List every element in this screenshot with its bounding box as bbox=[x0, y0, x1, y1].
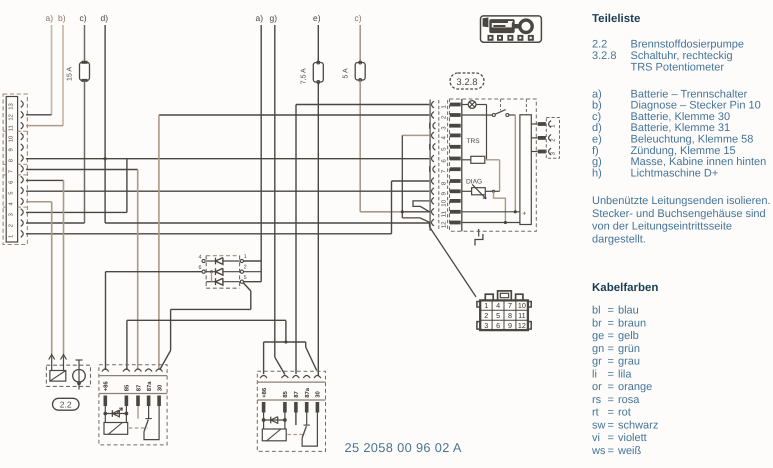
svg-text:a): a) bbox=[256, 13, 264, 23]
relay K1 suppressor diode bbox=[104, 406, 106, 414]
svg-text:5: 5 bbox=[8, 192, 14, 195]
svg-text:Diagnose – Stecker Pin 10: Diagnose – Stecker Pin 10 bbox=[631, 100, 761, 112]
svg-text:3: 3 bbox=[484, 321, 488, 330]
wire x171 down bbox=[170, 309, 172, 350]
svg-text:TRS: TRS bbox=[467, 138, 481, 145]
timer aux connector dashed box bbox=[546, 118, 559, 159]
svg-text:85: 85 bbox=[282, 391, 289, 398]
connector X1 13-pin housing dashed box bbox=[3, 94, 27, 245]
svg-text:6: 6 bbox=[7, 181, 14, 184]
svg-text:30: 30 bbox=[315, 391, 322, 398]
relay K1 pin contacts bbox=[102, 369, 109, 372]
relay K2 pin contacts bbox=[260, 376, 267, 379]
wire cross bar above relay2 bbox=[264, 341, 306, 343]
wire vertical x127 pin3-row to pin8-row bbox=[126, 159, 128, 213]
wire pin7 horizontal bbox=[26, 169, 138, 171]
wire resistor to pot column bbox=[485, 159, 500, 161]
control icon buttons bbox=[488, 35, 494, 41]
wire to plug view diagonal bbox=[429, 223, 476, 297]
svg-text:=: = bbox=[608, 317, 614, 329]
wire riser elbow into pin12 bbox=[402, 218, 429, 222]
wire pin3 to relay1 drop bbox=[26, 211, 127, 213]
wire a2 vertical to diode block bbox=[260, 25, 262, 261]
svg-text:DIAG: DIAG bbox=[466, 179, 482, 186]
wire pin6 to pump drop 2 bbox=[26, 179, 64, 181]
wire pin4 feed from riser bbox=[402, 134, 429, 136]
diode block V1 dashed housing bbox=[206, 255, 239, 257]
svg-text:2.2: 2.2 bbox=[60, 399, 72, 409]
wire riser x391 up to timer pin8 row bbox=[391, 181, 393, 234]
svg-text:b): b) bbox=[58, 13, 66, 23]
svg-text:1: 1 bbox=[244, 254, 247, 260]
svg-text:g): g) bbox=[270, 13, 278, 23]
wire lamp to drop bbox=[476, 104, 487, 106]
svg-text:c): c) bbox=[355, 13, 362, 23]
svg-text:schwarz: schwarz bbox=[618, 419, 658, 431]
wire x296 down to relay2 pin87 bbox=[295, 105, 297, 375]
wire junction zigzag to pin12 row bbox=[494, 191, 506, 222]
pump 2.2 dashed housing bbox=[46, 365, 90, 386]
wire c2 vertical below fuse bbox=[359, 81, 361, 212]
svg-text:lila: lila bbox=[618, 368, 632, 380]
diode block left pin circles bbox=[202, 259, 205, 262]
relay K2 suppressor diode bbox=[263, 413, 265, 421]
svg-text:85: 85 bbox=[124, 384, 131, 391]
svg-text:orange: orange bbox=[618, 381, 652, 393]
svg-text:7: 7 bbox=[8, 170, 14, 173]
wire b) vertical bbox=[62, 25, 64, 126]
svg-text:li: li bbox=[592, 368, 597, 380]
fuse 15 A bbox=[80, 62, 90, 80]
svg-text:e): e) bbox=[313, 13, 321, 23]
svg-text:5 A: 5 A bbox=[343, 68, 350, 78]
plug face center latch bbox=[498, 291, 512, 301]
lamp symbol in timer bbox=[462, 104, 468, 106]
svg-text:d): d) bbox=[101, 13, 109, 23]
svg-text:=: = bbox=[608, 343, 614, 355]
relay K1 pin87 stub bbox=[137, 406, 139, 419]
timer connector dashed strips bbox=[438, 100, 440, 231]
wire riser x402 pin4-pin12 bbox=[401, 135, 403, 218]
svg-text:gr: gr bbox=[592, 356, 602, 368]
wire x105 down to relay1 +86 bbox=[105, 272, 107, 370]
pump 2.2 coil bbox=[50, 371, 66, 382]
svg-text:2: 2 bbox=[244, 265, 247, 271]
svg-text:=: = bbox=[608, 368, 614, 380]
wire drop to relay2 +86 bbox=[263, 342, 265, 374]
wire pump left drop bbox=[51, 202, 53, 357]
svg-text:1: 1 bbox=[484, 301, 488, 310]
svg-text:12: 12 bbox=[441, 221, 448, 228]
svg-text:7,5 A: 7,5 A bbox=[301, 68, 308, 84]
svg-text:rs: rs bbox=[592, 394, 602, 406]
TRS series resistor bbox=[462, 159, 471, 161]
wire diode row3 diagonal out bbox=[244, 283, 251, 291]
timer module left wall bbox=[461, 99, 463, 231]
wire drop to relay1 pin85 bbox=[126, 320, 128, 370]
svg-text:4: 4 bbox=[496, 301, 500, 310]
svg-text:87a: 87a bbox=[146, 381, 153, 392]
timer aux connector 3-pin stubs bbox=[531, 123, 537, 125]
wire c2 horizontal into timer pin11 bbox=[360, 211, 402, 213]
wire x251 down bbox=[250, 291, 252, 309]
plug face grid bbox=[491, 300, 493, 330]
svg-text:Teileliste: Teileliste bbox=[592, 13, 640, 25]
relay K1 switch contact bbox=[148, 406, 150, 419]
wire across to x171 bbox=[171, 308, 251, 310]
control unit icon body bbox=[481, 16, 542, 42]
timer connector socket contacts bbox=[432, 101, 435, 108]
svg-text:blau: blau bbox=[618, 305, 639, 317]
svg-text:Batterie, Klemme 30: Batterie, Klemme 30 bbox=[631, 111, 731, 123]
svg-text:12: 12 bbox=[518, 321, 526, 330]
connector X1 group separators bbox=[3, 130, 6, 132]
DIAG potentiometer bbox=[462, 190, 472, 192]
svg-text:sw: sw bbox=[592, 419, 606, 431]
svg-text:b): b) bbox=[592, 100, 602, 112]
wire timer pin10-11 jumper bbox=[413, 201, 430, 212]
wire e) vertical below fuse to relay2 pin30 bbox=[317, 82, 319, 376]
svg-text:8: 8 bbox=[508, 311, 512, 320]
relay K1 mechanical link dashes bbox=[129, 427, 148, 429]
svg-text:6: 6 bbox=[198, 265, 201, 271]
diode V1.3 row bbox=[206, 281, 215, 283]
relay K1 pin30 hook bbox=[144, 406, 159, 440]
svg-text:gelb: gelb bbox=[618, 330, 639, 342]
wire diode-block row2 feed horizontal bbox=[106, 271, 203, 273]
switch S in timer bbox=[462, 114, 492, 116]
timer connector solid edge line bbox=[429, 100, 431, 231]
svg-text:a): a) bbox=[46, 13, 54, 23]
svg-text:bl: bl bbox=[592, 305, 601, 317]
svg-text:9: 9 bbox=[508, 321, 512, 330]
svg-text:2: 2 bbox=[7, 224, 14, 227]
control icon display-knob stub bbox=[514, 24, 520, 29]
fuse 5 A bbox=[355, 63, 365, 81]
wire pot to junction bbox=[485, 190, 499, 192]
diode block right pin circles bbox=[240, 259, 243, 262]
relay K2 terminal bars bbox=[262, 402, 266, 413]
svg-text:=: = bbox=[608, 432, 614, 444]
svg-text:=: = bbox=[608, 407, 614, 419]
wire c2 vertical above fuse bbox=[359, 25, 361, 63]
wire riser x286 down bbox=[285, 321, 287, 343]
svg-text:TRS Potentiometer: TRS Potentiometer bbox=[631, 62, 725, 74]
wire d) vertical bbox=[104, 25, 106, 223]
wire timer-pin1 horizontal bbox=[296, 104, 429, 106]
wire pin8 row to timer pin6 (ground bus) bbox=[26, 158, 429, 160]
relay K2 dashed housing bbox=[257, 371, 325, 451]
timer connector terminal bars bbox=[450, 103, 461, 107]
wire g) vertical bbox=[274, 25, 276, 357]
svg-text:Masse, Kabine innen hinten: Masse, Kabine innen hinten bbox=[631, 156, 767, 168]
svg-text:10: 10 bbox=[7, 136, 14, 142]
plug face side hooks bbox=[477, 302, 480, 308]
svg-text:Zündung, Klemme 15: Zündung, Klemme 15 bbox=[631, 145, 736, 157]
svg-text:87: 87 bbox=[135, 384, 142, 391]
pump 2.2 reference oval bbox=[53, 398, 80, 410]
svg-text:+86: +86 bbox=[261, 387, 268, 398]
svg-text:+86: +86 bbox=[103, 381, 110, 392]
svg-text:dargestellt.: dargestellt. bbox=[592, 233, 646, 245]
svg-text:f): f) bbox=[592, 145, 599, 157]
svg-text:3.2.8: 3.2.8 bbox=[592, 50, 616, 62]
wire pin1 long to riser x391 bbox=[26, 233, 392, 235]
svg-text:3: 3 bbox=[7, 213, 14, 216]
svg-text:d): d) bbox=[592, 122, 602, 134]
wire c) vertical below fuse to pin2 row bbox=[84, 80, 86, 223]
svg-text:2: 2 bbox=[484, 311, 488, 320]
svg-text:e): e) bbox=[592, 134, 602, 146]
svg-text:1: 1 bbox=[8, 235, 14, 238]
pump 2.2 inlet arrows bbox=[49, 355, 55, 360]
wire pin11 internal row bbox=[462, 211, 520, 213]
wire row2 right continues to a2 vertical bbox=[244, 271, 262, 273]
timer output block rectangle bbox=[520, 115, 531, 225]
plug face top latch tabs bbox=[485, 294, 493, 300]
wire stub and diagonal to relay2 pin30 bbox=[305, 342, 307, 347]
svg-text:=: = bbox=[608, 445, 614, 457]
relay K1 dashed housing bbox=[99, 365, 167, 445]
wire d) elbow to timer pin12 row bbox=[105, 222, 429, 224]
diode V1.1 row bbox=[206, 260, 215, 262]
svg-text:9: 9 bbox=[7, 148, 14, 151]
svg-text:30: 30 bbox=[156, 384, 163, 391]
svg-text:87a: 87a bbox=[304, 387, 311, 398]
svg-text:Kabelfarben: Kabelfarben bbox=[592, 282, 658, 294]
wire relay-coil bus from relay1 pin85 corner to relay2 riser bbox=[127, 319, 286, 321]
svg-text:87: 87 bbox=[293, 391, 300, 398]
svg-text:11: 11 bbox=[8, 125, 14, 131]
svg-text:rot: rot bbox=[618, 407, 631, 419]
svg-text:h): h) bbox=[592, 167, 602, 179]
svg-text:5: 5 bbox=[244, 275, 247, 281]
control icon knob bbox=[520, 20, 532, 32]
svg-text:25 2058 00 96 02 A: 25 2058 00 96 02 A bbox=[345, 440, 462, 455]
wire c) vertical above fuse bbox=[84, 25, 86, 62]
wire x159 down to relay1 pin30 bbox=[158, 115, 160, 370]
wire pin2 to fuse c) bbox=[26, 222, 85, 224]
svg-text:11: 11 bbox=[518, 311, 525, 320]
svg-text:13: 13 bbox=[7, 103, 14, 109]
svg-text:rosa: rosa bbox=[618, 394, 640, 406]
svg-text:=: = bbox=[608, 419, 614, 431]
junction dot d-line on pin8 row bbox=[104, 157, 107, 160]
svg-text:Stecker- und Buchsengehäuse si: Stecker- und Buchsengehäuse sind bbox=[592, 208, 766, 220]
svg-text:Lichtmaschine D+: Lichtmaschine D+ bbox=[631, 167, 719, 179]
svg-text:4: 4 bbox=[198, 255, 201, 261]
relay K2 coil bbox=[263, 420, 265, 429]
svg-text:grau: grau bbox=[618, 356, 640, 368]
svg-text:15 A: 15 A bbox=[67, 67, 74, 81]
svg-text:rt: rt bbox=[592, 407, 599, 419]
svg-text:Brennstoffdosierpumpe: Brennstoffdosierpumpe bbox=[631, 39, 745, 51]
diode block internal jumper row2-row3 bbox=[210, 270, 213, 273]
wire pin12 internal row bbox=[462, 222, 520, 224]
relay K2 mechanical link dashes bbox=[287, 434, 305, 436]
wire into timer pin8 bbox=[392, 180, 430, 182]
control icon side tab bbox=[483, 18, 489, 28]
svg-text:grün: grün bbox=[618, 343, 640, 355]
control icon display bbox=[490, 20, 514, 33]
svg-text:weiß: weiß bbox=[617, 445, 642, 457]
svg-text:gn: gn bbox=[592, 343, 604, 355]
svg-text:ws: ws bbox=[591, 445, 606, 457]
svg-text:7: 7 bbox=[508, 301, 512, 310]
connector X1 pin-number box bbox=[6, 97, 17, 243]
svg-text:Batterie – Trennschalter: Batterie – Trennschalter bbox=[631, 88, 748, 100]
fuse 7.5 A bbox=[313, 63, 323, 83]
svg-text:=: = bbox=[608, 394, 614, 406]
svg-text:10: 10 bbox=[441, 199, 448, 206]
wire pin4 to pump drop bbox=[26, 201, 52, 203]
svg-text:8: 8 bbox=[7, 159, 14, 162]
wire a) vertical bbox=[51, 25, 53, 115]
plug face view body bbox=[480, 300, 528, 330]
diode V1.2 row bbox=[206, 271, 215, 273]
timer 3.2.8 reference oval bbox=[450, 73, 484, 89]
timer housing ground stub bbox=[478, 229, 480, 237]
relay K2 pin30 hook bbox=[302, 413, 317, 447]
svg-text:Schaltuhr, rechteckig: Schaltuhr, rechteckig bbox=[631, 50, 733, 62]
chassis step symbol bbox=[475, 234, 483, 246]
wire lamp drop x486 bbox=[486, 105, 488, 160]
svg-text:vi: vi bbox=[592, 432, 600, 444]
svg-text:braun: braun bbox=[618, 317, 646, 329]
svg-text:2.2: 2.2 bbox=[592, 39, 607, 51]
svg-text:or: or bbox=[592, 381, 602, 393]
svg-text:11: 11 bbox=[441, 210, 448, 217]
wire diagonal into relay1 pin30 bbox=[160, 351, 170, 370]
relay K2 terminal strip lines bbox=[257, 381, 325, 383]
relay K2 switch contact bbox=[306, 413, 308, 426]
wire switch drop x515 bbox=[514, 115, 516, 212]
svg-text:Unbenützte Leitungsenden isoli: Unbenützte Leitungsenden isolieren. bbox=[592, 195, 771, 207]
wire pump right drop bbox=[63, 180, 65, 356]
relay K1 coil bbox=[104, 414, 106, 423]
wire e) vertical above fuse bbox=[317, 25, 319, 63]
wire pin11 to b) bbox=[26, 125, 63, 127]
svg-text:10: 10 bbox=[518, 301, 526, 310]
relay K2 pin87 stub bbox=[295, 413, 297, 426]
svg-text:6: 6 bbox=[496, 321, 500, 330]
svg-text:=: = bbox=[608, 330, 614, 342]
svg-text:c): c) bbox=[592, 111, 601, 123]
svg-text:violett: violett bbox=[618, 432, 647, 444]
wire pin12 to a) bbox=[26, 114, 52, 116]
svg-text:=: = bbox=[608, 305, 614, 317]
pump 2.2 motor bbox=[78, 360, 80, 390]
svg-text:3.2.8: 3.2.8 bbox=[456, 77, 477, 88]
connector X1 socket contacts bbox=[21, 230, 24, 237]
svg-text:br: br bbox=[592, 317, 602, 329]
svg-text:=: = bbox=[608, 356, 614, 368]
svg-text:c): c) bbox=[80, 13, 87, 23]
wire a2 lower segment to diode row3 bbox=[260, 261, 262, 282]
dashed actuator links bbox=[500, 99, 502, 110]
svg-text:12: 12 bbox=[7, 114, 14, 120]
svg-text:a): a) bbox=[592, 88, 602, 100]
wire g) diagonal into relay2 pin85 bbox=[275, 357, 285, 374]
svg-text:ge: ge bbox=[592, 330, 604, 342]
wire x138 down to relay1 pin87 bbox=[137, 170, 139, 371]
timer module dashed housing bbox=[450, 99, 537, 231]
wire timer-pin2 horizontal bbox=[159, 114, 429, 116]
relay K1 terminal bars bbox=[104, 396, 108, 407]
wire a2 into diode row1 bbox=[244, 260, 261, 262]
svg-text:von der Leitungseintrittsseite: von der Leitungseintrittsseite bbox=[592, 221, 732, 233]
svg-text:+: + bbox=[522, 210, 526, 217]
svg-text:Beleuchtung, Klemme 58: Beleuchtung, Klemme 58 bbox=[631, 134, 754, 146]
svg-text:5: 5 bbox=[496, 311, 500, 320]
wire pin5 row to timer pin9 bbox=[26, 190, 429, 192]
svg-text:=: = bbox=[608, 381, 614, 393]
svg-text:Batterie, Klemme 31: Batterie, Klemme 31 bbox=[631, 122, 731, 134]
svg-text:g): g) bbox=[592, 156, 602, 168]
relay K1 terminal strip lines bbox=[99, 375, 167, 377]
